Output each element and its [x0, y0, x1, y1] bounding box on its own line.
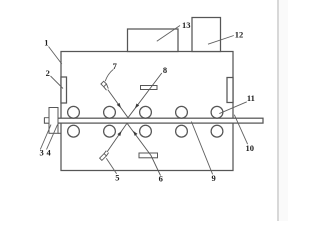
bracket 11 [227, 78, 233, 103]
svg-text:8: 8 [163, 65, 167, 75]
roller upper 2 [104, 106, 116, 118]
svg-text:7: 7 [113, 61, 118, 71]
svg-text:9: 9 [211, 173, 215, 183]
spray line upper-left (nozzle 7 to strip) [108, 90, 128, 118]
spray line lower-right (strip to label 6) [127, 123, 161, 175]
leader 4 [47, 125, 58, 150]
arrow upper-left [117, 103, 121, 108]
leader 11 [219, 102, 247, 114]
leader 5 [106, 158, 116, 174]
svg-text:3: 3 [39, 148, 43, 158]
spray line upper-right (label 8 to strip) [128, 73, 162, 118]
svg-text:1: 1 [44, 38, 48, 48]
support foot line [58, 132, 61, 134]
rollers: upper row [68, 106, 223, 137]
roller lower 3 [140, 125, 152, 137]
spray gun 7 body [101, 81, 108, 90]
bracket 2 [61, 77, 67, 103]
svg-text:6: 6 [159, 173, 163, 183]
flat nozzle 6 [139, 153, 158, 158]
roller lower 4 [176, 125, 188, 137]
svg-text:12: 12 [235, 29, 244, 39]
spray line lower-left (strip to nozzle 5) [107, 123, 127, 152]
roller upper 4 [176, 106, 188, 118]
svg-text:10: 10 [245, 143, 254, 153]
spray gun 7 mouth [104, 84, 109, 90]
hopper box 13 [128, 29, 179, 52]
leader 9 [191, 122, 212, 175]
page edge rule [277, 0, 279, 221]
leader 3 [40, 125, 51, 150]
roller lower 5 [211, 125, 223, 137]
roller lower 1 [68, 125, 80, 137]
motor box 12 [192, 18, 221, 52]
spray gun 5 body [100, 151, 109, 161]
leader 10 [234, 115, 247, 145]
leader 7 [105, 69, 113, 81]
roller lower 2 [104, 125, 116, 137]
svg-text:13: 13 [182, 20, 191, 30]
end block 3 [45, 118, 50, 123]
leader 13 [157, 26, 180, 42]
svg-text:2: 2 [46, 68, 50, 78]
svg-text:5: 5 [115, 173, 119, 183]
arrow lower-left [117, 131, 121, 136]
svg-text:4: 4 [46, 148, 51, 158]
page margin tint [279, 0, 288, 221]
roller upper 1 [68, 106, 80, 118]
arrow upper-right [135, 104, 139, 109]
leader 12 [208, 36, 234, 45]
arrow lower-right [133, 131, 137, 136]
leader 2 [51, 76, 64, 89]
support block 4 [49, 108, 58, 134]
roller upper 3 [140, 106, 152, 118]
spray gun 5 mouth [104, 151, 109, 156]
main housing box [61, 52, 233, 171]
leader 1 [49, 47, 62, 65]
flat nozzle 8 [141, 86, 158, 90]
svg-text:11: 11 [247, 93, 255, 103]
roller upper 5 [211, 106, 223, 118]
strip / sheet 10 [45, 118, 264, 123]
